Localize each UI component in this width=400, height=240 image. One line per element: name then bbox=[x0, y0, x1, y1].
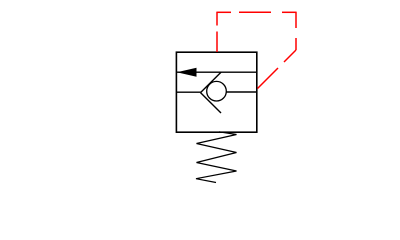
pilot line vertical right dash 2 bbox=[295, 38, 297, 50]
pilot line top dash 1 bbox=[216, 11, 231, 13]
pilot line top dash 2 bbox=[239, 11, 271, 13]
check valve seat lower bbox=[201, 93, 222, 113]
wire check inlet bbox=[176, 91, 200, 93]
pilot line vertical right dash 1 bbox=[295, 12, 297, 28]
pilot line vertical left dash 1 bbox=[216, 32, 218, 53]
pilot line diagonal dash 2 bbox=[258, 68, 279, 89]
valve body V1 bbox=[176, 52, 256, 132]
check valve ball bbox=[207, 81, 227, 101]
check valve seat upper bbox=[201, 72, 222, 92]
spring bbox=[196, 132, 237, 183]
wire check outlet bbox=[226, 91, 257, 93]
pilot line top dash 3 bbox=[282, 11, 297, 13]
flow direction arrow bbox=[177, 68, 197, 77]
pilot line vertical left dash 2 bbox=[216, 12, 218, 25]
wire flow line bbox=[177, 71, 257, 73]
pilot line diagonal dash 1 bbox=[284, 50, 296, 62]
